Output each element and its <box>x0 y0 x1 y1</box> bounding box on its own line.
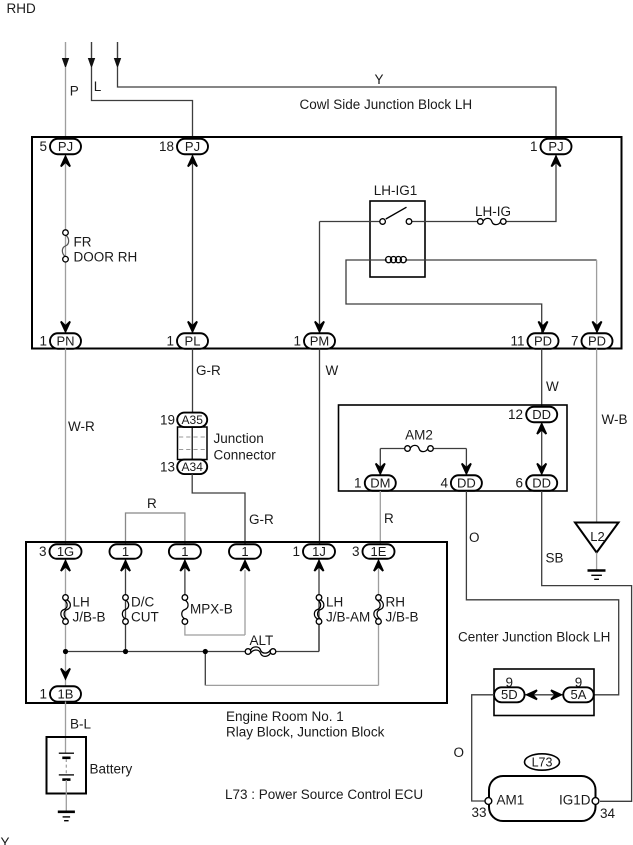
svg-text:MPX-B: MPX-B <box>190 602 233 617</box>
svg-text:Battery: Battery <box>90 762 133 777</box>
svg-text:13: 13 <box>160 459 175 474</box>
svg-text:1: 1 <box>292 544 300 559</box>
svg-text:Y: Y <box>375 72 384 87</box>
svg-text:1: 1 <box>293 334 301 349</box>
svg-text:B-L: B-L <box>70 717 92 732</box>
svg-text:L73: L73 <box>532 755 553 769</box>
svg-text:DD: DD <box>532 407 551 422</box>
svg-text:Rlay Block, Junction Block: Rlay Block, Junction Block <box>226 725 385 740</box>
svg-text:DM: DM <box>370 475 390 490</box>
svg-text:PL: PL <box>185 333 201 348</box>
svg-text:1: 1 <box>39 334 47 349</box>
svg-text:19: 19 <box>160 412 175 427</box>
svg-text:Y: Y <box>1 835 10 845</box>
svg-text:L: L <box>94 79 102 94</box>
svg-text:33: 33 <box>472 805 487 820</box>
svg-text:DD: DD <box>457 475 476 490</box>
svg-text:PJ: PJ <box>548 139 563 154</box>
svg-text:IG1D: IG1D <box>559 793 591 808</box>
svg-text:Engine Room No. 1: Engine Room No. 1 <box>226 709 344 724</box>
svg-text:4: 4 <box>440 476 448 491</box>
svg-text:1: 1 <box>122 544 129 559</box>
svg-text:P: P <box>70 84 79 99</box>
svg-text:R: R <box>147 496 157 511</box>
svg-text:LH: LH <box>326 595 343 610</box>
svg-text:A35: A35 <box>182 413 204 427</box>
svg-text:AM1: AM1 <box>497 793 525 808</box>
svg-text:PN: PN <box>56 333 74 348</box>
svg-text:3: 3 <box>352 544 360 559</box>
svg-text:1: 1 <box>166 334 174 349</box>
svg-text:W: W <box>546 379 559 394</box>
svg-text:O: O <box>454 745 465 760</box>
svg-text:PD: PD <box>534 333 552 348</box>
svg-text:3: 3 <box>39 544 47 559</box>
svg-text:1: 1 <box>530 139 538 154</box>
svg-text:RHD: RHD <box>7 1 36 16</box>
svg-text:AM2: AM2 <box>405 428 433 443</box>
svg-text:34: 34 <box>600 806 616 821</box>
svg-text:FR: FR <box>74 235 92 250</box>
svg-text:1G: 1G <box>57 544 74 559</box>
svg-text:1: 1 <box>241 544 248 559</box>
svg-text:R: R <box>384 511 394 526</box>
svg-text:1E: 1E <box>371 544 387 559</box>
svg-text:9: 9 <box>575 675 583 690</box>
svg-text:18: 18 <box>159 139 174 154</box>
svg-text:W: W <box>326 363 339 378</box>
svg-text:J/B-B: J/B-B <box>73 610 106 625</box>
svg-text:Junction: Junction <box>214 431 264 446</box>
svg-text:LH: LH <box>73 595 90 610</box>
svg-text:PJ: PJ <box>185 139 200 154</box>
svg-text:J/B-AM: J/B-AM <box>326 610 370 625</box>
svg-text:ALT: ALT <box>250 633 274 648</box>
svg-text:Cowl Side Junction Block LH: Cowl Side Junction Block LH <box>300 97 473 112</box>
svg-text:DOOR RH: DOOR RH <box>74 250 138 265</box>
svg-text:7: 7 <box>571 334 579 349</box>
svg-text:11: 11 <box>510 334 524 349</box>
svg-text:O: O <box>469 530 480 545</box>
svg-text:5: 5 <box>39 139 47 154</box>
svg-text:A34: A34 <box>182 460 204 474</box>
svg-text:SB: SB <box>546 551 564 566</box>
svg-text:L73 : Power Source Control ECU: L73 : Power Source Control ECU <box>225 787 423 802</box>
svg-text:1: 1 <box>39 687 47 702</box>
svg-text:W-R: W-R <box>68 419 95 434</box>
svg-text:PM: PM <box>310 333 330 348</box>
svg-text:1J: 1J <box>312 544 326 559</box>
svg-text:W-B: W-B <box>602 412 628 427</box>
svg-text:CUT: CUT <box>131 610 159 625</box>
svg-text:L2: L2 <box>590 529 604 544</box>
svg-text:DD: DD <box>532 475 551 490</box>
svg-text:G-R: G-R <box>196 363 221 378</box>
svg-text:6: 6 <box>515 476 523 491</box>
svg-text:D/C: D/C <box>131 595 155 610</box>
svg-text:PJ: PJ <box>58 139 73 154</box>
svg-text:1B: 1B <box>58 686 74 701</box>
svg-text:Center Junction Block LH: Center Junction Block LH <box>458 630 610 645</box>
svg-text:LH-IG1: LH-IG1 <box>374 183 418 198</box>
svg-text:LH-IG: LH-IG <box>475 204 511 219</box>
svg-text:J/B-B: J/B-B <box>386 610 419 625</box>
svg-text:9: 9 <box>506 675 514 690</box>
svg-text:1: 1 <box>354 476 362 491</box>
svg-text:RH: RH <box>386 595 406 610</box>
svg-text:1: 1 <box>181 544 188 559</box>
svg-text:G-R: G-R <box>249 512 274 527</box>
svg-text:Connector: Connector <box>214 448 277 463</box>
svg-text:12: 12 <box>508 407 523 422</box>
svg-text:PD: PD <box>588 333 606 348</box>
